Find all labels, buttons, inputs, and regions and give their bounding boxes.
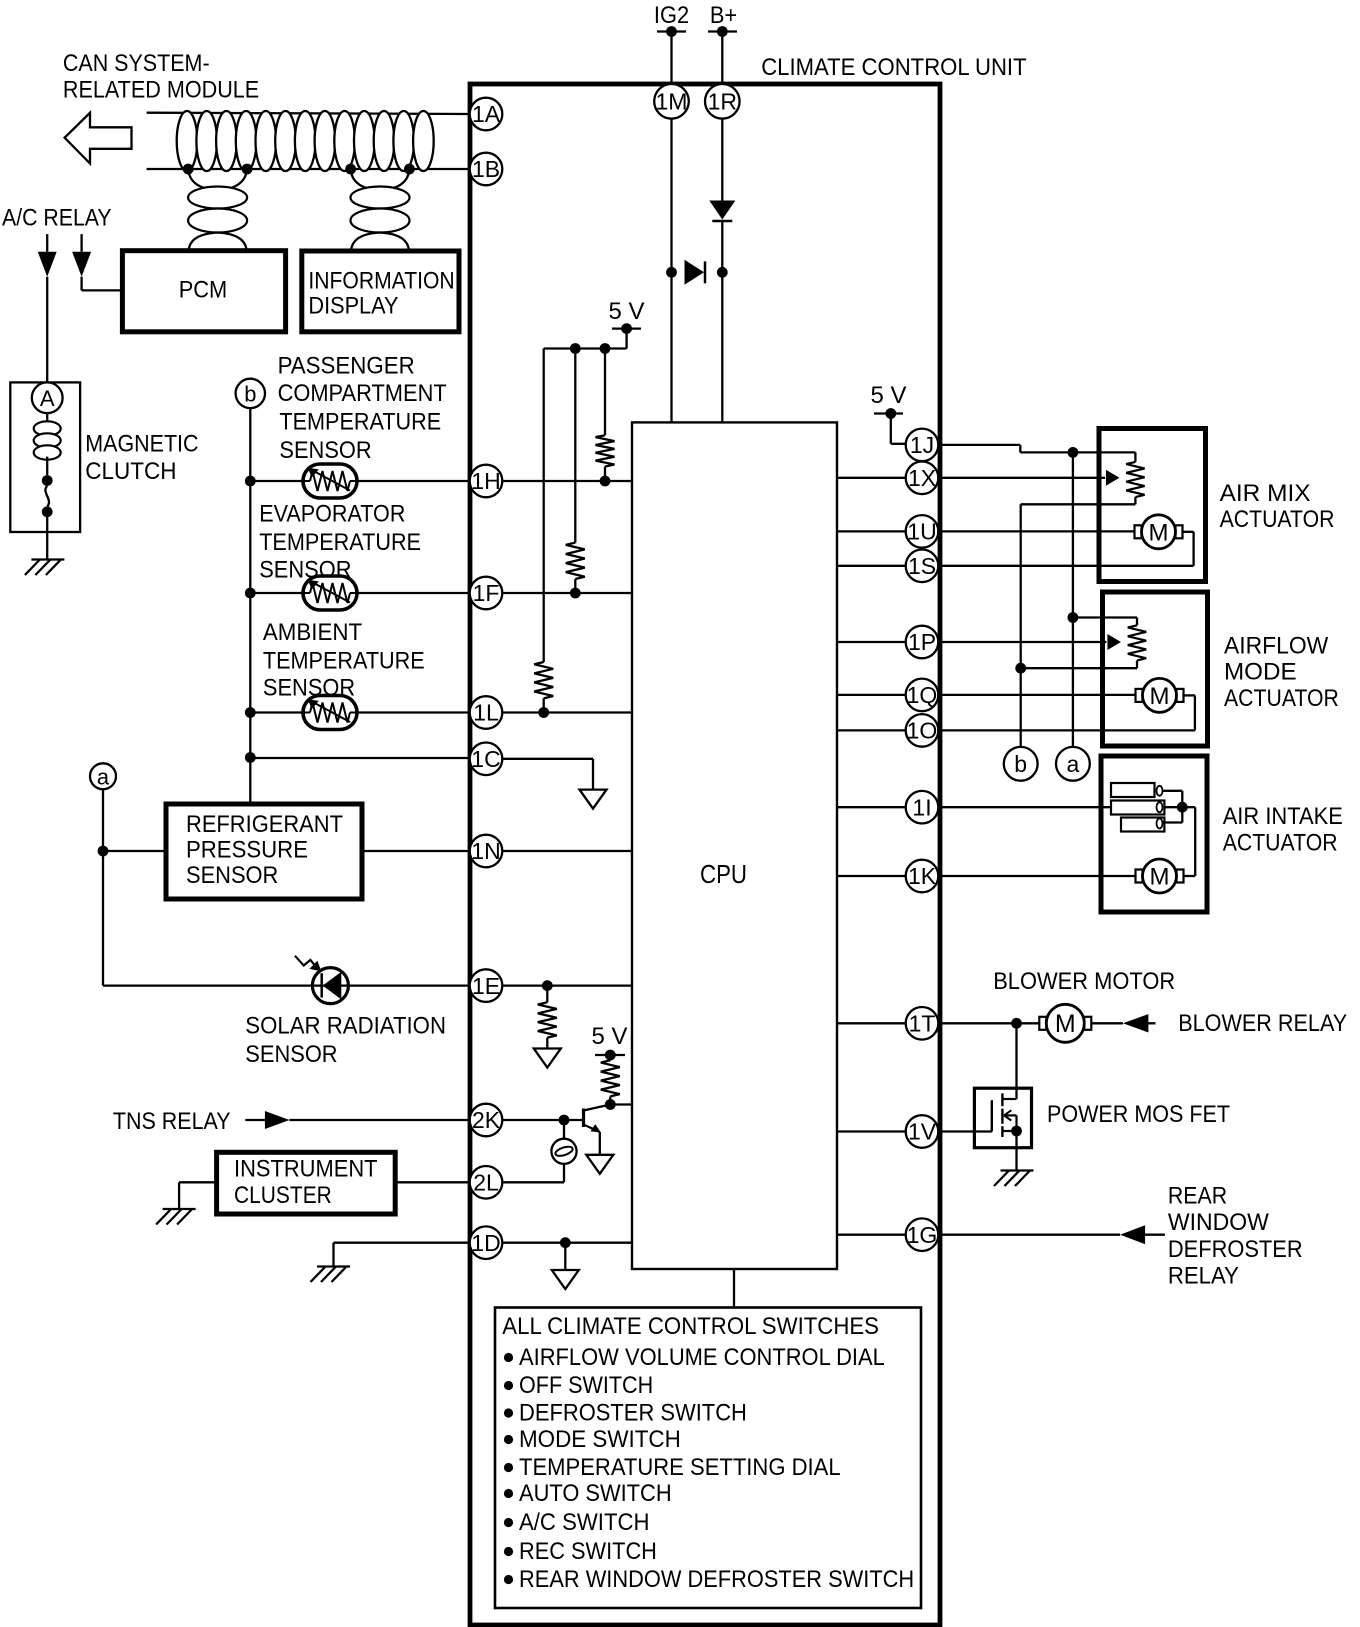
magnetic clutch coil L1: [34, 421, 61, 459]
svg-text:PRESSURE: PRESSURE: [186, 837, 308, 864]
power terminal IG2: [657, 26, 686, 37]
svg-text:AMBIENT: AMBIENT: [263, 619, 362, 646]
wire 1J to air mix pot: [938, 445, 1135, 462]
svg-text:OFF SWITCH: OFF SWITCH: [519, 1372, 653, 1399]
connector 1B: [470, 153, 503, 186]
CPU U1 box: [632, 422, 837, 1269]
wire 1M to CPU: [670, 118, 672, 422]
svg-text:CPU: CPU: [700, 859, 747, 889]
label DISPLAY: [308, 292, 398, 319]
wire 5V feed: [544, 329, 627, 349]
connector 1V: [906, 1115, 939, 1148]
module PCM box: [122, 251, 285, 332]
svg-text:RELAY: RELAY: [1168, 1263, 1239, 1290]
junction a-line/airflow pot: [1068, 612, 1079, 623]
svg-text:REFRIGERANT: REFRIGERANT: [186, 811, 343, 838]
node b (top left): [236, 379, 265, 408]
label PRESSURE: [186, 837, 308, 864]
label AMBIENT: [263, 619, 362, 646]
terminal A circle: [32, 382, 63, 413]
wire CPU to 1U: [837, 530, 906, 532]
wire INFO drop right curve: [380, 170, 409, 191]
wire air mix motor return to 1S: [938, 532, 1193, 566]
wire 1F to CPU: [502, 592, 632, 594]
thermistor evaporator temperature sensor: [303, 576, 357, 610]
junction clutch contact upper: [42, 475, 53, 486]
connector 1H: [470, 465, 503, 498]
arrow BLOWER RELAY (left): [1123, 1014, 1149, 1032]
svg-text:SENSOR: SENSOR: [279, 437, 371, 464]
MOSFET Q2 (power MOS FET): [992, 1093, 1017, 1137]
label CAN SYSTEM-RELATED MODULE line2: [63, 76, 259, 103]
junction clutch contact lower: [42, 506, 53, 517]
wire PCM drop right curve: [218, 170, 248, 191]
connector 1K: [906, 860, 939, 893]
connector 1C: [470, 743, 503, 776]
label A/C SWITCH: [519, 1509, 650, 1536]
svg-text:b: b: [1014, 751, 1027, 777]
svg-text:REC SWITCH: REC SWITCH: [519, 1538, 657, 1565]
wire 1D to signal ground: [564, 1243, 566, 1270]
svg-text:DEFROSTER: DEFROSTER: [1168, 1236, 1303, 1263]
wire blower relay stub: [1147, 1022, 1156, 1024]
wire clutch to ground: [46, 517, 48, 560]
wire 1D to CPU: [502, 1242, 632, 1244]
label BLOWER RELAY: [1178, 1010, 1347, 1037]
connector 1M: [654, 84, 689, 119]
switch plate 3 (air intake): [1121, 818, 1164, 832]
connector 1O: [906, 714, 939, 747]
resistor R1 (1H pull-up): [596, 435, 615, 466]
junction bus/1C: [245, 752, 256, 763]
wire CPU to 1I: [837, 806, 906, 808]
arrow REAR WINDOW DEFROSTER RELAY (left): [1120, 1225, 1145, 1244]
svg-text:1O: 1O: [907, 718, 938, 744]
bullet AIRFLOW VOLUME CONTROL DIAL: [504, 1353, 513, 1362]
svg-text:M: M: [1150, 683, 1170, 710]
motor M (air intake): [1136, 859, 1184, 893]
wire a-line to airflow pot: [1073, 618, 1137, 626]
connector 1G: [906, 1218, 939, 1251]
label SOLAR RADIATION: [245, 1013, 446, 1040]
wire 2K to base: [502, 1119, 583, 1121]
svg-text:M: M: [1055, 1010, 1076, 1038]
label INSTRUMENT: [234, 1156, 378, 1183]
junction CAN low / INFO drop b: [404, 164, 415, 175]
ground (1D): [311, 1267, 351, 1283]
signal ground (1C): [580, 790, 607, 809]
wire junction 1M line to D2: [666, 267, 677, 278]
wire R3 lower lead: [543, 698, 545, 712]
bullet A/C SWITCH: [504, 1518, 513, 1527]
coil twisted drop to PCM: [188, 187, 247, 233]
svg-text:1F: 1F: [473, 580, 500, 606]
label DEFROSTER: [1168, 1236, 1303, 1263]
wire PCM drop left curve: [188, 170, 217, 191]
svg-text:SENSOR: SENSOR: [186, 862, 278, 889]
svg-text:A: A: [40, 386, 55, 411]
arrow 1P wiper: [1107, 634, 1121, 650]
wire R1 upper lead: [604, 349, 606, 436]
bullet MODE SWITCH: [504, 1435, 513, 1444]
junction bus/1F: [245, 588, 256, 599]
junction 1D internal: [560, 1237, 571, 1248]
thermistor ambient temperature sensor: [303, 696, 357, 730]
wire 1K to motor: [938, 875, 1135, 877]
connector 1X: [906, 462, 939, 495]
wire refrigerant sensor right lead (1N): [362, 850, 470, 852]
wire 1Q to motor: [938, 694, 1135, 696]
wire lamp bottom to 2L: [502, 1164, 564, 1182]
svg-text:2L: 2L: [473, 1170, 499, 1196]
wire intake sw mid: [1164, 806, 1182, 808]
wire CPU to 1S: [837, 565, 906, 567]
wire lamp top lead: [563, 1120, 565, 1139]
label AUTO SWITCH: [519, 1480, 672, 1507]
wire R5 lower lead: [609, 1096, 611, 1104]
resistor R5 (collector pull-up): [601, 1060, 620, 1096]
svg-text:EVAPORATOR: EVAPORATOR: [259, 501, 405, 528]
connector 1R: [705, 84, 740, 119]
junction CAN low / PCM drop a: [183, 164, 194, 175]
label EVAPORATOR: [259, 501, 405, 528]
wire CPU to 1P: [837, 641, 906, 643]
svg-text:1U: 1U: [907, 519, 936, 545]
coil twisted pair CAN bus: [177, 111, 434, 171]
svg-text:POWER MOS FET: POWER MOS FET: [1047, 1101, 1230, 1128]
svg-text:1C: 1C: [471, 746, 500, 772]
photodiode solar radiation sensor: [295, 956, 349, 1004]
thermistor passenger compartment temperature sensor: [303, 464, 357, 498]
svg-text:AIR INTAKE: AIR INTAKE: [1223, 803, 1343, 830]
svg-text:M: M: [1150, 864, 1170, 891]
diode D2 (1M to 1R): [685, 260, 706, 285]
junction intake switch node: [1177, 802, 1188, 813]
svg-text:ALL CLIMATE CONTROL SWITCHES: ALL CLIMATE CONTROL SWITCHES: [502, 1313, 879, 1340]
power terminal 5V 1J: [874, 408, 903, 419]
junction bus/1L: [245, 707, 256, 718]
svg-text:1N: 1N: [471, 838, 500, 864]
svg-text:1K: 1K: [908, 863, 937, 889]
junction 2K/lamp: [559, 1115, 570, 1126]
wire R2 lower lead: [574, 579, 576, 593]
svg-text:PCM: PCM: [179, 277, 228, 304]
wire PCM drop flare left: [189, 233, 218, 251]
label REAR WINDOW DEFROSTER SWITCH: [519, 1566, 914, 1593]
bullet TEMPERATURE SETTING DIAL: [504, 1463, 513, 1472]
svg-text:INFORMATION: INFORMATION: [308, 267, 454, 294]
wire b-line (right): [1020, 504, 1022, 747]
svg-text:1E: 1E: [472, 973, 500, 999]
bullet OFF SWITCH: [504, 1381, 513, 1390]
wire refrigerant sensor left lead: [103, 850, 166, 852]
label TEMPERATURE (ambient): [263, 648, 425, 675]
signal ground (1E): [534, 1049, 561, 1068]
wire CPU to 1V: [837, 1130, 906, 1132]
svg-text:CLUSTER: CLUSTER: [234, 1182, 332, 1209]
svg-text:a: a: [97, 765, 110, 790]
wire 1D line outside: [334, 1242, 470, 1244]
label 5 V (transistor): [592, 1023, 629, 1050]
bullet DEFROSTER SWITCH: [504, 1408, 513, 1417]
air intake actuator box: [1101, 756, 1207, 912]
contact ellipse 2: [1157, 802, 1163, 812]
svg-text:IG2: IG2: [654, 2, 689, 29]
connector 1P: [906, 626, 939, 659]
svg-text:DISPLAY: DISPLAY: [308, 292, 398, 319]
label IG2: [654, 2, 689, 29]
label MODE: [1224, 659, 1297, 686]
connector 1F: [470, 577, 503, 610]
block arrow to CAN module: [65, 113, 132, 164]
junction R3/1L: [538, 707, 549, 718]
svg-text:TEMPERATURE: TEMPERATURE: [259, 529, 421, 556]
junction 1J/a-line: [1068, 447, 1079, 458]
svg-text:INSTRUMENT: INSTRUMENT: [234, 1156, 378, 1183]
label A/C RELAY: [2, 204, 112, 231]
label DEFROSTER SWITCH: [519, 1400, 747, 1427]
svg-text:M: M: [1149, 519, 1169, 546]
climate control unit enclosure box: [470, 84, 940, 1625]
label REFRIGERANT: [186, 811, 343, 838]
wire 1P wiper line: [938, 641, 1106, 643]
wire intake node to motor: [1182, 807, 1195, 876]
label PASSENGER: [278, 353, 415, 380]
potentiometer airflow mode: [1128, 625, 1146, 660]
wire R4 lower lead: [546, 1038, 548, 1049]
wire coil to contact: [46, 457, 48, 476]
wire CPU to 1K: [837, 875, 906, 877]
potentiometer air mix: [1126, 462, 1144, 497]
svg-text:B+: B+: [710, 2, 737, 29]
svg-text:1Q: 1Q: [907, 682, 938, 708]
label ALL CLIMATE CONTROL SWITCHES: [502, 1313, 879, 1340]
wire collector node to CPU: [610, 1103, 632, 1105]
arrow A/C relay left (down): [38, 252, 57, 277]
wire INFO drop left curve: [351, 170, 380, 191]
svg-text:WINDOW: WINDOW: [1168, 1209, 1270, 1236]
wire CPU to 1Q: [837, 694, 906, 696]
wire left arrow to magnetic clutch: [46, 277, 48, 383]
wire A/C relay stub right: [80, 234, 82, 252]
label SENSOR (passenger): [279, 437, 371, 464]
label SENSOR (evaporator): [259, 557, 351, 584]
label CLUSTER: [234, 1182, 332, 1209]
junction 1E/R4: [542, 980, 553, 991]
label CPU: [700, 859, 747, 889]
label TEMPERATURE SETTING DIAL: [519, 1454, 841, 1481]
connector 2L: [470, 1166, 503, 1199]
junction 5V/R1: [600, 343, 611, 354]
wire sensor bus vertical: [249, 408, 251, 804]
wire IG2 to 1M: [670, 32, 672, 85]
svg-text:TEMPERATURE SETTING DIAL: TEMPERATURE SETTING DIAL: [519, 1454, 841, 1481]
svg-text:TNS RELAY: TNS RELAY: [113, 1108, 231, 1135]
svg-text:A/C RELAY: A/C RELAY: [2, 204, 112, 231]
svg-text:1P: 1P: [908, 629, 936, 655]
svg-text:TEMPERATURE: TEMPERATURE: [263, 648, 425, 675]
motor M (blower): [1039, 1004, 1091, 1042]
arrow TNS relay (right): [265, 1111, 290, 1129]
svg-text:b: b: [244, 382, 256, 407]
wire R3 upper lead: [543, 349, 545, 663]
wire 1E to CPU: [502, 984, 632, 986]
lamp (illumination): [551, 1139, 576, 1164]
svg-text:REAR: REAR: [1168, 1183, 1227, 1210]
svg-text:BLOWER MOTOR: BLOWER MOTOR: [993, 968, 1175, 995]
svg-text:1T: 1T: [909, 1011, 936, 1037]
wire 1N to CPU: [502, 850, 632, 852]
label TNS RELAY: [113, 1108, 231, 1135]
wire 1F sensor line: [250, 592, 469, 594]
wire junction D2 to 1R line: [717, 267, 728, 278]
svg-text:CLUTCH: CLUTCH: [85, 458, 176, 485]
wire CPU to switch box: [733, 1269, 735, 1308]
signal ground (1D): [552, 1270, 579, 1289]
motor M (airflow mode): [1136, 678, 1184, 712]
wire 1L to CPU: [502, 711, 632, 713]
label AIRFLOW VOLUME CONTROL DIAL: [519, 1344, 885, 1371]
label CAN SYSTEM-RELATED MODULE line1: [63, 50, 210, 77]
svg-text:1I: 1I: [912, 794, 931, 820]
label 5 V (1J): [871, 382, 908, 409]
svg-text:ACTUATOR: ACTUATOR: [1223, 830, 1338, 857]
wire intake sw top: [1162, 790, 1182, 792]
wire 1I to switch: [938, 806, 1111, 808]
wire intake sw vertical: [1181, 791, 1183, 823]
wire 1L sensor line: [250, 711, 469, 713]
svg-text:2K: 2K: [472, 1107, 501, 1133]
svg-text:TEMPERATURE: TEMPERATURE: [279, 409, 441, 436]
wire 2K line outside: [289, 1119, 469, 1121]
svg-text:SOLAR RADIATION: SOLAR RADIATION: [245, 1013, 446, 1040]
ground (power MOS FET): [994, 1171, 1034, 1187]
wire source to ground: [1015, 1131, 1017, 1171]
wire emitter to ground: [599, 1132, 601, 1155]
wire CPU to 1O: [837, 729, 906, 731]
svg-text:SENSOR: SENSOR: [245, 1041, 337, 1068]
connector 1J: [906, 429, 939, 462]
wire 1R to diode D1: [721, 118, 723, 200]
wire B+ to 1R: [721, 32, 723, 85]
svg-text:1J: 1J: [910, 432, 934, 458]
wire CPU to 1X: [837, 477, 906, 479]
node b (right): [1004, 747, 1038, 781]
connector 1L: [470, 696, 503, 729]
label REC SWITCH: [519, 1538, 657, 1565]
svg-text:AIR MIX: AIR MIX: [1220, 480, 1311, 507]
coil twisted drop to INFORMATION DISPLAY: [351, 187, 410, 233]
wire intake sw bottom: [1162, 821, 1182, 823]
contact ellipse 1: [1157, 786, 1163, 796]
svg-text:1V: 1V: [908, 1119, 937, 1145]
label INFORMATION: [308, 267, 454, 294]
connector 1I: [906, 791, 939, 824]
svg-text:1X: 1X: [908, 465, 936, 491]
svg-text:PASSENGER: PASSENGER: [278, 353, 415, 380]
wire INFO drop flare right: [380, 233, 409, 252]
svg-text:1A: 1A: [472, 101, 501, 127]
wire 1E line outside: [103, 984, 470, 986]
label SENSOR (refrigerant): [186, 862, 278, 889]
node a (right): [1056, 747, 1090, 781]
arrow 1X wiper: [1106, 470, 1120, 486]
svg-text:5 V: 5 V: [592, 1023, 629, 1050]
label CLUTCH: [85, 458, 176, 485]
junction CAN low / PCM drop b: [242, 164, 253, 175]
junction MOSFET source: [1011, 1126, 1022, 1137]
transistor Q1 (NPN): [584, 1105, 611, 1133]
wire R1 lower lead: [604, 467, 606, 482]
resistor R2 (1F pull-up): [566, 543, 585, 579]
wire R2 upper lead: [574, 349, 576, 543]
svg-text:BLOWER RELAY: BLOWER RELAY: [1178, 1010, 1347, 1037]
bullet AUTO SWITCH: [504, 1489, 513, 1498]
resistor R4 (1E): [538, 1002, 557, 1037]
wire clutch flexible link: [45, 486, 49, 507]
wire 1X wiper line: [938, 477, 1105, 479]
power MOS FET box: [974, 1088, 1031, 1148]
label CLIMATE CONTROL UNIT: [761, 54, 1026, 81]
connector 1N: [470, 835, 503, 868]
diode D1 (B+ line): [709, 201, 735, 222]
junction R1/1H: [600, 476, 611, 487]
label WINDOW: [1168, 1209, 1270, 1236]
wire 1D to ground: [332, 1243, 334, 1267]
label 5 V (sensors): [609, 298, 646, 325]
airflow mode actuator box: [1103, 592, 1208, 746]
label ACTUATOR (air intake): [1223, 830, 1338, 857]
contact ellipse 3: [1157, 819, 1163, 829]
label AIR INTAKE: [1223, 803, 1343, 830]
wire INFO drop flare left: [351, 233, 380, 252]
svg-text:1L: 1L: [473, 700, 499, 726]
label BLOWER MOTOR: [993, 968, 1175, 995]
label AIRFLOW: [1224, 632, 1329, 659]
power terminal 5V transistor: [595, 1050, 625, 1061]
refrigerant pressure sensor box: [166, 804, 362, 899]
label MODE SWITCH: [519, 1426, 681, 1453]
power terminal 5V sensors: [612, 323, 641, 334]
wire a-line (right): [1072, 452, 1074, 747]
svg-text:REAR WINDOW DEFROSTER SWITCH: REAR WINDOW DEFROSTER SWITCH: [519, 1566, 914, 1593]
label TEMPERATURE (evaporator): [259, 529, 421, 556]
ground (instrument cluster): [156, 1209, 196, 1225]
svg-text:COMPARTMENT: COMPARTMENT: [278, 380, 447, 407]
connector 1E: [470, 969, 503, 1002]
wire 1G line: [938, 1234, 1120, 1236]
svg-text:RELATED MODULE: RELATED MODULE: [63, 76, 259, 103]
wire drain from blower node: [1015, 1023, 1017, 1099]
svg-text:a: a: [1067, 751, 1080, 777]
svg-text:1M: 1M: [656, 89, 688, 115]
wire 1H to CPU: [502, 480, 632, 482]
junction a-line/refrigerant: [98, 846, 109, 857]
wire 1V to gate: [938, 1130, 992, 1132]
label TEMPERATURE (passenger): [279, 409, 441, 436]
wire airflow motor return to 1O: [938, 695, 1195, 730]
svg-text:5 V: 5 V: [871, 382, 908, 409]
label ACTUATOR (airflow): [1224, 685, 1339, 712]
label ACTUATOR (air mix): [1220, 506, 1335, 533]
ground (magnetic clutch): [25, 560, 65, 576]
wire 1C to internal ground: [502, 759, 593, 790]
wire 1C line outside: [250, 757, 469, 759]
junction collector node: [605, 1099, 616, 1110]
junction 1T/MOSFET drain: [1011, 1018, 1022, 1029]
signal ground (emitter): [586, 1155, 613, 1174]
svg-text:1B: 1B: [472, 156, 500, 182]
